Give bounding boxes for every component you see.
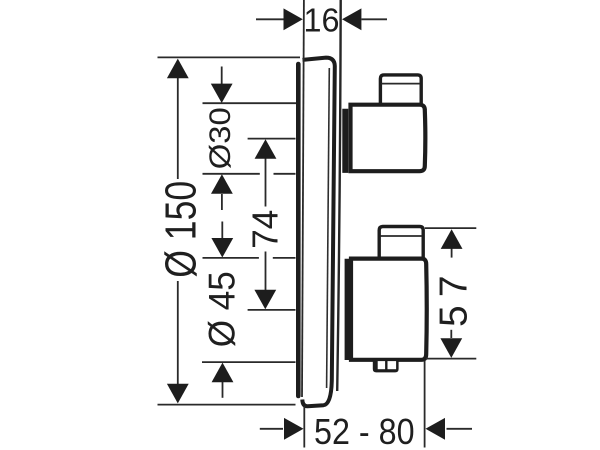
dimension 57: top arrow [441, 229, 463, 249]
top knob [380, 75, 421, 105]
dimension 57: bottom arrow [440, 338, 462, 358]
dimension 16: right arrow [342, 8, 361, 30]
dimension Ø150: dimension line [177, 78, 179, 386]
dimension 74: dimension line [265, 158, 267, 290]
wall plate back bar [296, 64, 301, 396]
svg-text:52 - 80: 52 - 80 [314, 411, 415, 450]
bottom knob inner line [381, 235, 423, 237]
dimension Ø150: bottom arrow [167, 384, 189, 404]
dimension 57: bottom extension line [426, 358, 476, 360]
dimension Ø30: bottom tail [221, 194, 223, 210]
svg-text:Ø 150: Ø 150 [157, 181, 205, 278]
dimension Ø30: top extension line [203, 102, 297, 104]
svg-text:Ø30: Ø30 [204, 107, 237, 169]
dimension 52-80: left extension line [303, 407, 305, 448]
svg-text:74: 74 [245, 210, 286, 249]
bottom tab right window [388, 361, 397, 369]
dimension Ø45: bottom tail [222, 382, 224, 398]
bottom handle body [351, 259, 427, 360]
dimension 57: bottom tail [450, 330, 452, 338]
cover inner front line [327, 68, 330, 388]
dimension Ø150: top arrow [167, 59, 189, 79]
dimension Ø45: top arrow [211, 238, 233, 258]
dimension 16: line tails [256, 18, 387, 20]
bottom handle neck [345, 259, 351, 360]
dimension Ø30: top arrow [211, 84, 233, 103]
dimension 52-80: right arrow [426, 418, 446, 440]
top knob inner line [382, 83, 421, 85]
dimension 16: left arrow [284, 8, 303, 30]
dimension 52-80: line tails [260, 428, 472, 430]
dimension 74: bottom extension line [248, 309, 296, 311]
dimension Ø30: bottom arrow [211, 174, 233, 194]
cover back face line / 16 left extension [302, 0, 304, 397]
dimension 74: top extension line [248, 138, 296, 140]
svg-text:16: 16 [304, 3, 340, 40]
dimension Ø45: top extension line [203, 257, 296, 259]
dimension 52-80: left arrow [284, 418, 304, 440]
dimension Ø150: top extension line [158, 56, 301, 58]
dimension 52-80: right extension line [424, 361, 426, 448]
dimension Ø45: bottom extension line [202, 361, 296, 363]
bottom tab left window [378, 361, 385, 369]
top handle neck [342, 109, 348, 173]
bottom tab [373, 359, 399, 373]
dimension Ø150: bottom extension line [158, 404, 296, 406]
dimension Ø45: top tail [221, 222, 223, 239]
dimension Ø45: bottom arrow [212, 363, 234, 383]
escutcheon cover outline [302, 58, 335, 407]
dimension Ø30: top tail [221, 67, 223, 85]
bottom knob [379, 227, 423, 259]
dimension 74: bottom arrow [254, 290, 276, 310]
dimension 57: top tail [451, 249, 453, 258]
top handle body [351, 105, 426, 172]
dimension 57: top extension line [425, 227, 476, 229]
dimension 74: top arrow [255, 139, 277, 159]
svg-text:Ø 45: Ø 45 [201, 271, 243, 347]
dimension Ø30: bottom extension line [203, 173, 296, 175]
cover front dome line / 16 right extension [337, 0, 341, 391]
